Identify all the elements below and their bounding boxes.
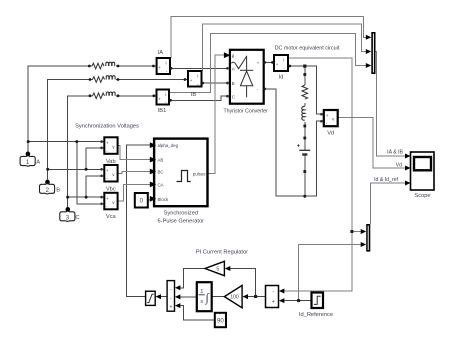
svg-text:100: 100 bbox=[230, 295, 239, 301]
svg-text:-: - bbox=[170, 286, 172, 292]
svg-text:s: s bbox=[200, 299, 203, 305]
svg-text:Id_Reference: Id_Reference bbox=[299, 312, 333, 318]
svg-text:+: + bbox=[276, 62, 279, 67]
svg-text:-: - bbox=[166, 69, 168, 74]
svg-text:A: A bbox=[232, 66, 235, 71]
svg-text:CA: CA bbox=[158, 182, 164, 187]
svg-text:∫: ∫ bbox=[205, 291, 210, 305]
svg-text:Vbc: Vbc bbox=[106, 186, 116, 192]
svg-text:Vd: Vd bbox=[327, 130, 334, 136]
svg-text:Vd: Vd bbox=[396, 162, 402, 168]
svg-text:i: i bbox=[197, 74, 198, 79]
svg-text:i: i bbox=[166, 61, 167, 66]
svg-text:+: + bbox=[190, 78, 193, 83]
svg-text:+: + bbox=[170, 304, 173, 310]
svg-text:alpha_deg: alpha_deg bbox=[158, 143, 179, 148]
svg-text:B: B bbox=[56, 188, 60, 194]
svg-text:-: - bbox=[326, 121, 328, 126]
svg-text:v: v bbox=[112, 144, 115, 149]
svg-text:BC: BC bbox=[158, 170, 164, 175]
svg-text:-: - bbox=[106, 176, 108, 181]
svg-text:+: + bbox=[326, 113, 329, 118]
svg-text:IA: IA bbox=[158, 50, 164, 56]
svg-text:Synchronization Voltages: Synchronization Voltages bbox=[75, 123, 139, 129]
svg-text:+: + bbox=[257, 60, 260, 65]
svg-text:Vab: Vab bbox=[106, 159, 116, 165]
svg-text:C: C bbox=[232, 94, 235, 99]
svg-text:6-Pulse Generator: 6-Pulse Generator bbox=[158, 218, 205, 224]
svg-text:Scope: Scope bbox=[414, 193, 430, 199]
svg-text:PI Current Regulator: PI Current Regulator bbox=[196, 250, 248, 256]
svg-text:C: C bbox=[75, 215, 79, 221]
svg-text:1: 1 bbox=[200, 289, 203, 295]
svg-text:+: + bbox=[106, 196, 109, 201]
svg-text:pulses: pulses bbox=[193, 171, 206, 176]
svg-text:g: g bbox=[232, 53, 235, 58]
svg-text:-: - bbox=[283, 66, 285, 71]
svg-text:v: v bbox=[112, 200, 115, 205]
svg-text:-: - bbox=[170, 295, 172, 301]
svg-text:B: B bbox=[232, 81, 235, 86]
svg-text:v: v bbox=[332, 117, 335, 122]
svg-text:-: - bbox=[257, 87, 259, 92]
svg-text:+: + bbox=[272, 300, 275, 306]
svg-text:v: v bbox=[112, 172, 115, 177]
svg-text:AB: AB bbox=[158, 158, 164, 163]
svg-text:90: 90 bbox=[217, 318, 224, 324]
svg-text:+: + bbox=[106, 141, 109, 146]
svg-text:-: - bbox=[106, 204, 108, 209]
svg-text:i: i bbox=[283, 58, 284, 63]
svg-text:+: + bbox=[106, 168, 109, 173]
svg-text:5: 5 bbox=[216, 267, 219, 273]
svg-text:Block: Block bbox=[158, 197, 170, 202]
svg-text:Id: Id bbox=[279, 75, 284, 81]
svg-text:Thyristor Converter: Thyristor Converter bbox=[223, 108, 268, 114]
svg-text:Id & Id_ref: Id & Id_ref bbox=[374, 177, 398, 183]
svg-text:DC motor equivalent circuit: DC motor equivalent circuit bbox=[275, 46, 340, 52]
svg-text:IB1: IB1 bbox=[158, 108, 167, 114]
svg-text:Vca: Vca bbox=[106, 214, 117, 220]
svg-text:-: - bbox=[106, 148, 108, 153]
svg-text:0: 0 bbox=[140, 199, 144, 205]
svg-text:IB: IB bbox=[191, 92, 197, 98]
svg-text:A: A bbox=[36, 160, 40, 166]
svg-text:+: + bbox=[158, 65, 161, 70]
svg-text:Synchronized: Synchronized bbox=[164, 211, 198, 217]
svg-text:IA & IB: IA & IB bbox=[387, 150, 403, 156]
svg-text:-: - bbox=[272, 289, 274, 295]
svg-text:i: i bbox=[165, 92, 166, 97]
svg-text:+: + bbox=[158, 97, 161, 102]
